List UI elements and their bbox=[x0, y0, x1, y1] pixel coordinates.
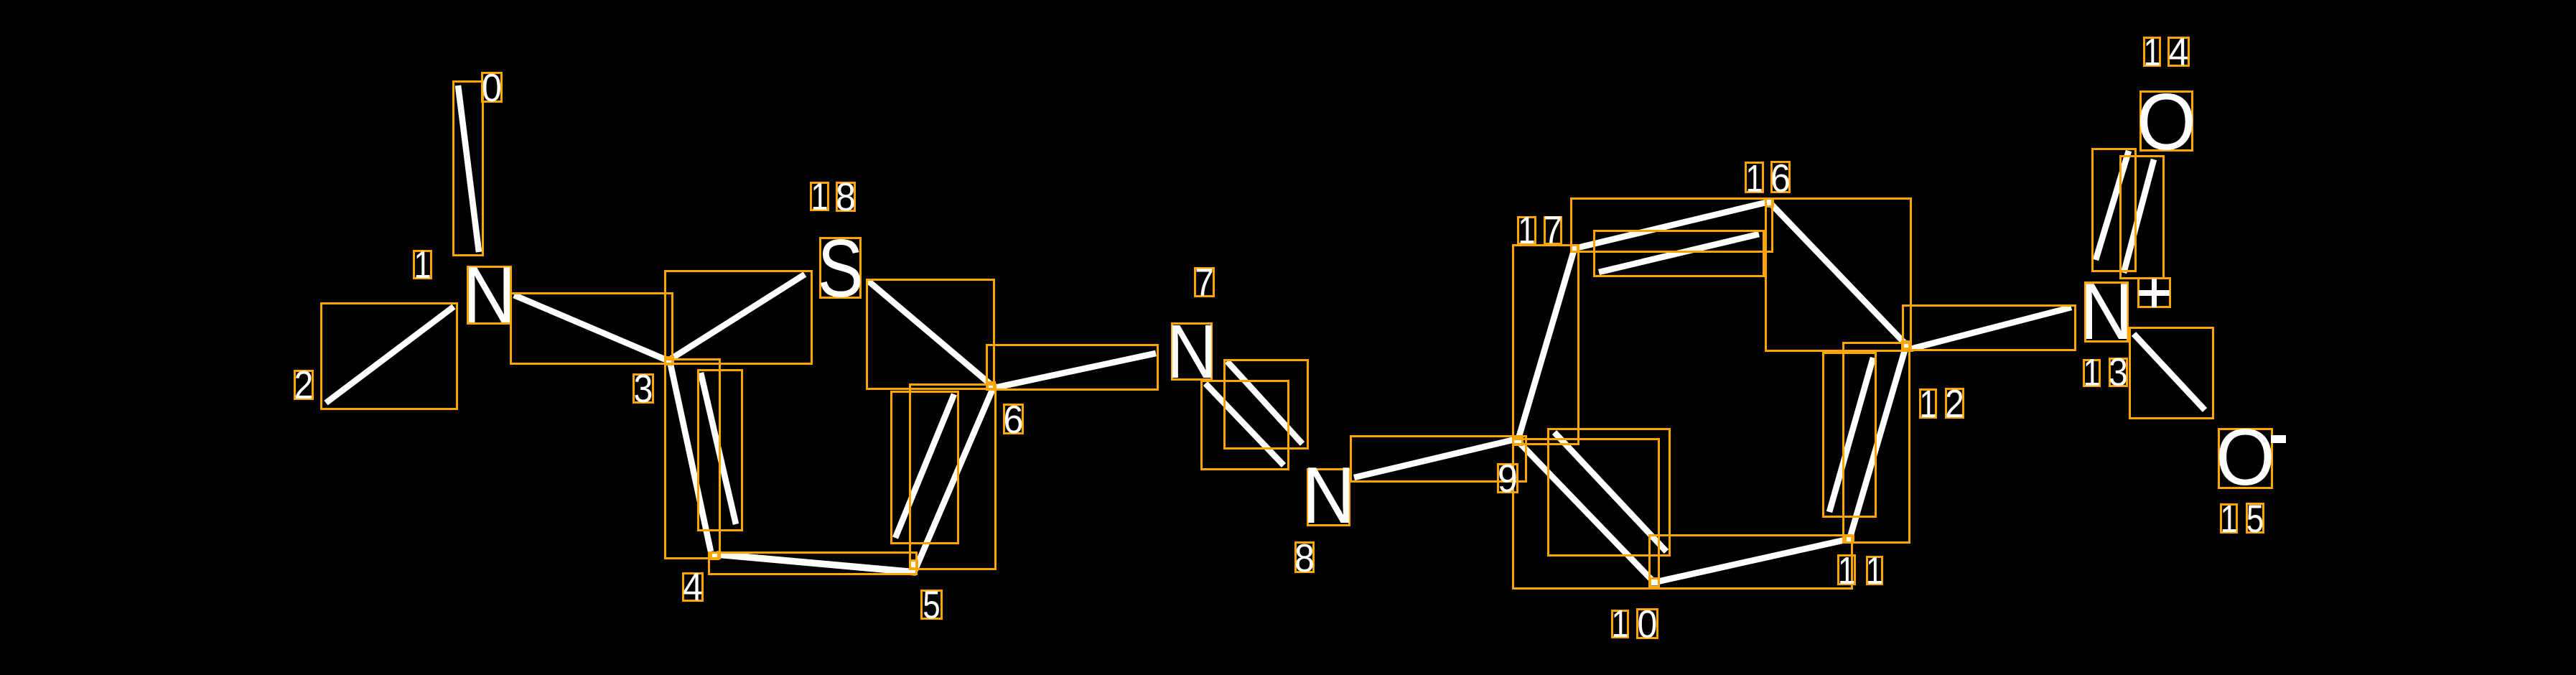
label 12 bbox=[1919, 381, 1964, 426]
bbox bond 12 second bbox=[1824, 353, 1876, 517]
bond 2 line (C2-N1 methyl) bbox=[326, 307, 454, 403]
label 6 bbox=[1003, 398, 1023, 442]
svg-text:7: 7 bbox=[1195, 260, 1214, 304]
label 16 bbox=[1745, 157, 1791, 200]
svg-text:4: 4 bbox=[683, 565, 703, 609]
svg-text:8: 8 bbox=[1294, 536, 1315, 580]
bbox bond C11-C10 bbox=[1650, 536, 1852, 589]
svg-text:0: 0 bbox=[482, 66, 502, 110]
bond 7 second line (N7=N8) bbox=[1205, 383, 1284, 465]
node C4 atom box bbox=[711, 553, 719, 559]
bbox bond 2 bbox=[322, 304, 457, 409]
atom N8 (azo N) bbox=[1302, 450, 1355, 540]
bond 3 line (N1-C3) bbox=[514, 295, 668, 360]
bond S18-C6 line bbox=[868, 281, 993, 386]
label 1 bbox=[414, 244, 431, 287]
bbox bond C3-S18 bbox=[666, 271, 812, 364]
label 10 bbox=[1611, 602, 1657, 646]
svg-text:N: N bbox=[2080, 266, 2133, 356]
node C11 junction marker bbox=[1846, 536, 1853, 542]
svg-text:1: 1 bbox=[1838, 550, 1855, 592]
label 13 bbox=[2083, 350, 2128, 394]
label 3 bbox=[634, 366, 653, 411]
bond N13=O14 left line bbox=[2096, 151, 2129, 260]
charge minus sign (O15-) bbox=[2271, 435, 2286, 443]
bbox bond 0 bbox=[454, 82, 483, 256]
bond C9-C17 line bbox=[1518, 248, 1574, 441]
svg-text:1: 1 bbox=[1866, 550, 1883, 592]
svg-text:1: 1 bbox=[1745, 158, 1763, 200]
bond 4 second line (C3=C4) bbox=[701, 373, 736, 524]
bbox bond 5 second bbox=[892, 392, 958, 544]
bond 0 line (C0-N1 methyl) bbox=[458, 85, 479, 252]
svg-text:1: 1 bbox=[2083, 352, 2100, 394]
label 5 bbox=[922, 582, 942, 627]
node C5 atom box bbox=[910, 561, 918, 569]
bbox bond 17 main bbox=[1572, 199, 1773, 252]
node C11 atom box bbox=[1846, 536, 1854, 543]
svg-text:8: 8 bbox=[836, 175, 856, 219]
bond 12 main line (C12=C11) bbox=[1849, 345, 1906, 539]
label 9 bbox=[1498, 457, 1518, 501]
svg-text:6: 6 bbox=[1770, 157, 1791, 200]
svg-text:1: 1 bbox=[1611, 603, 1628, 646]
bond 9 line (N8-C9) bbox=[1354, 439, 1515, 478]
atom N1 (dimethylamino N) bbox=[463, 250, 516, 340]
bbox bond 17 second bbox=[1595, 231, 1764, 276]
node C16 atom box bbox=[1766, 199, 1773, 207]
node C4 junction marker bbox=[711, 553, 719, 559]
bbox bond C9-C17 bbox=[1513, 246, 1579, 444]
bbox bond 6 bbox=[987, 345, 1158, 390]
bbox bond 5 main bbox=[910, 385, 996, 569]
bond C3-S18 line bbox=[668, 274, 805, 360]
bbox bond 4 main bbox=[666, 360, 720, 559]
bbox bond S18-C6 bbox=[867, 280, 994, 389]
atom N7 (azo N) bbox=[1167, 309, 1217, 394]
svg-text:5: 5 bbox=[923, 582, 940, 627]
bond N13-O15 line bbox=[2134, 334, 2205, 410]
bbox bond N13-O15 bbox=[2130, 328, 2213, 419]
svg-text:3: 3 bbox=[2109, 350, 2128, 394]
svg-text:1: 1 bbox=[1919, 383, 1936, 426]
bbox bond N13=O14 left bbox=[2093, 149, 2136, 271]
node C10 atom box bbox=[1651, 579, 1659, 587]
svg-text:1: 1 bbox=[2220, 498, 2237, 541]
node C3 atom box bbox=[666, 358, 673, 365]
bond 6 line (C6-N7) bbox=[994, 353, 1156, 388]
bbox bond C16-C12 bbox=[1766, 199, 1911, 351]
bond C11-C10 line bbox=[1654, 539, 1848, 582]
charge plus sign (N13+) box bbox=[2139, 279, 2170, 308]
bond 7 main line (N7=N8) bbox=[1227, 361, 1302, 444]
svg-text:9: 9 bbox=[1498, 457, 1518, 501]
node C5 junction marker bbox=[910, 562, 918, 567]
bbox bond 7 main bbox=[1225, 360, 1308, 449]
bbox bond 10 second bbox=[1549, 429, 1670, 556]
bbox bond 9 bbox=[1351, 437, 1526, 482]
svg-text:5: 5 bbox=[2246, 496, 2264, 541]
node C9 junction marker bbox=[1514, 439, 1521, 444]
svg-text:4: 4 bbox=[2168, 30, 2188, 74]
svg-text:2: 2 bbox=[1945, 381, 1964, 426]
node C6 junction marker bbox=[988, 383, 995, 389]
svg-text:N: N bbox=[463, 250, 516, 340]
bond 5 second line (C5=C6) bbox=[895, 394, 954, 538]
bbox bond C12-N13 bbox=[1903, 306, 2076, 350]
node C17 junction marker bbox=[1571, 246, 1578, 251]
svg-text:N: N bbox=[1302, 450, 1355, 540]
atom S18 (thiophene S) bbox=[818, 223, 864, 315]
svg-text:6: 6 bbox=[1003, 398, 1023, 442]
svg-text:O: O bbox=[2216, 414, 2275, 502]
node C17 atom box bbox=[1572, 246, 1578, 252]
bond C12-N13 line bbox=[1910, 307, 2071, 349]
bond C16-C12 line bbox=[1770, 202, 1905, 344]
label 8 bbox=[1294, 536, 1315, 580]
svg-text:0: 0 bbox=[1637, 602, 1657, 646]
label 14 bbox=[2143, 30, 2188, 74]
bond 5 main line (C5=C6) bbox=[915, 388, 993, 571]
bond N13=O14 right line bbox=[2124, 159, 2154, 273]
node C3 junction marker bbox=[666, 358, 673, 364]
label 15 bbox=[2220, 496, 2264, 541]
svg-text:1: 1 bbox=[1518, 210, 1535, 252]
bbox bond N13=O14 right bbox=[2121, 157, 2164, 279]
bond 12 second line (C12=C11) bbox=[1829, 358, 1873, 512]
node C9 atom box bbox=[1513, 438, 1523, 445]
node C10 junction marker bbox=[1651, 580, 1658, 586]
bond 17 second line (C17=C16) bbox=[1599, 234, 1759, 272]
bbox bond 12 main bbox=[1844, 343, 1910, 543]
svg-text:1: 1 bbox=[811, 176, 828, 218]
svg-text:O: O bbox=[2137, 78, 2196, 167]
label 7 bbox=[1195, 260, 1214, 304]
svg-text:S: S bbox=[818, 223, 864, 315]
node C12 junction marker bbox=[1903, 343, 1910, 348]
label 2 bbox=[294, 363, 314, 407]
label 18 bbox=[811, 175, 856, 219]
atom O14 (nitro O) bbox=[2137, 78, 2196, 167]
bond 10 main line (C10=C9) bbox=[1518, 441, 1654, 582]
label 4 bbox=[683, 565, 703, 609]
node C6 atom box bbox=[988, 383, 995, 390]
svg-text:7: 7 bbox=[1544, 208, 1563, 252]
bbox bond 7 second bbox=[1202, 381, 1289, 470]
label 17 bbox=[1518, 208, 1562, 252]
node C12 atom box bbox=[1903, 342, 1910, 349]
bond 17 main line (C17=C16) bbox=[1574, 202, 1769, 248]
bbox bond 4 second bbox=[699, 371, 742, 531]
node C16 junction marker bbox=[1766, 200, 1773, 205]
bond C4-C5 line bbox=[717, 554, 916, 572]
label 11 bbox=[1838, 550, 1883, 592]
svg-text:2: 2 bbox=[294, 363, 314, 407]
bond 4 main line (C3=C4) bbox=[670, 361, 711, 551]
svg-text:N: N bbox=[1167, 309, 1217, 394]
bond 10 second line (C10=C9) bbox=[1554, 432, 1666, 551]
atom O15 (nitro O-) bbox=[2216, 414, 2275, 502]
bbox bond 3 bbox=[511, 294, 673, 364]
bbox bond 10 main bbox=[1513, 439, 1659, 589]
svg-text:3: 3 bbox=[634, 366, 653, 411]
svg-text:1: 1 bbox=[414, 244, 431, 287]
label 0 bbox=[482, 66, 502, 110]
svg-text:1: 1 bbox=[2143, 32, 2160, 74]
atom N13 (nitro N+) bbox=[2080, 266, 2133, 356]
bbox bond C4-C5 bbox=[709, 553, 917, 574]
